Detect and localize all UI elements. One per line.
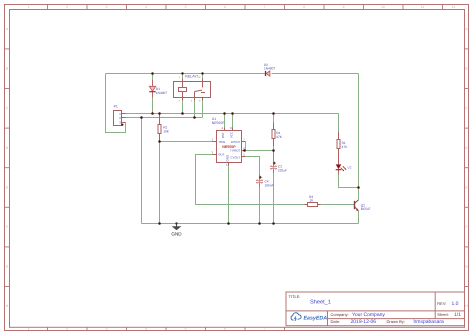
node C4 bottom	[258, 222, 261, 225]
svg-text:P1: P1	[114, 105, 118, 109]
op-amp/timer U1 NE555P	[212, 117, 246, 167]
svg-text:G: G	[6, 265, 9, 269]
pin stubs	[213, 128, 246, 166]
title block texts	[289, 294, 449, 324]
svg-text:RELAY1: RELAY1	[185, 74, 199, 78]
svg-text:12: 12	[452, 5, 456, 9]
svg-text:5: 5	[185, 327, 187, 331]
wire relay NO bottom	[202, 101, 204, 118]
node R2 top	[158, 112, 161, 115]
wire VCC rail y114	[126, 113, 339, 115]
connector P1	[114, 105, 126, 126]
wire P1 pin3 loop	[106, 74, 126, 133]
svg-text:F: F	[465, 225, 467, 229]
svg-text:3: 3	[106, 5, 108, 9]
svg-text:2: 2	[66, 327, 68, 331]
svg-text:3: 3	[106, 327, 108, 331]
wire R4 upper lead	[273, 114, 275, 123]
frame ticks right	[465, 49, 469, 287]
capacitor C4	[256, 174, 273, 187]
ground	[171, 224, 182, 237]
svg-text:2019-12-06: 2019-12-06	[351, 319, 377, 325]
resistor R3	[305, 195, 321, 207]
svg-text:RST: RST	[221, 132, 225, 138]
wire R2 lower to bottom rail	[159, 142, 161, 224]
wire R3 to Q2 base	[318, 204, 355, 206]
capacitor C2	[270, 151, 287, 174]
svg-text:CVOLT: CVOLT	[230, 156, 240, 160]
transistor Q2	[355, 200, 371, 211]
wire LED down and to collector	[339, 174, 359, 188]
wire x142 down	[141, 118, 143, 224]
node C2 top	[272, 149, 275, 152]
node LED collector	[357, 186, 360, 189]
EasyEDA logo	[291, 313, 327, 322]
svg-text:GND: GND	[171, 232, 182, 237]
diode D2	[264, 63, 275, 76]
pin names	[218, 131, 240, 161]
node C2 bottom	[272, 222, 275, 225]
node 555 RST rail	[223, 112, 226, 115]
svg-text:2: 2	[66, 5, 68, 9]
resistor R4	[272, 123, 283, 147]
pin stubs	[182, 79, 184, 82]
wire top rail left segment	[106, 73, 265, 75]
wire 555 VCC pin up	[232, 114, 234, 128]
svg-text:47K: 47K	[276, 135, 283, 139]
svg-text:4: 4	[145, 5, 147, 9]
svg-text:Company:: Company:	[331, 312, 349, 317]
svg-text:8: 8	[303, 5, 305, 9]
wire rail y118	[126, 117, 203, 119]
svg-text:F: F	[6, 225, 8, 229]
node TRIG R2	[158, 140, 161, 143]
svg-text:EasyEDA: EasyEDA	[304, 315, 328, 321]
svg-text:100nF: 100nF	[265, 183, 274, 187]
wire R4 to C2 node	[273, 146, 275, 151]
frame ticks top	[48, 5, 443, 10]
diode D1	[149, 80, 167, 98]
node relay coil top	[181, 72, 183, 74]
svg-text:10K: 10K	[163, 130, 170, 134]
svg-text:4: 4	[145, 327, 147, 331]
svg-text:Sheet:: Sheet:	[437, 312, 449, 317]
svg-text:1.0: 1.0	[452, 301, 459, 307]
wire THRES to C2 node	[245, 150, 274, 152]
svg-text:Drawn By:: Drawn By:	[387, 319, 405, 324]
svg-text:11: 11	[421, 5, 425, 9]
svg-text:GND: GND	[226, 154, 230, 162]
resistor R1	[337, 132, 347, 164]
switch	[194, 92, 196, 98]
wire Q2 emitter down	[358, 211, 360, 223]
LED U2	[336, 164, 352, 174]
wire bottom rail	[142, 223, 359, 225]
node relay common y118	[193, 116, 196, 119]
svg-text:5: 5	[185, 5, 187, 9]
svg-text:VCC: VCC	[229, 131, 233, 138]
svg-text:TITLE:: TITLE:	[289, 294, 301, 299]
svg-text:6: 6	[224, 5, 226, 9]
svg-text:1: 1	[28, 5, 30, 9]
svg-text:NE555P: NE555P	[212, 121, 225, 125]
node D1 bottom	[151, 112, 154, 115]
wire top rail right segment	[272, 73, 359, 75]
svg-text:OUT: OUT	[218, 153, 225, 157]
svg-text:1N4007: 1N4007	[264, 67, 275, 71]
node GND symbol	[175, 222, 177, 224]
wire TRIG	[160, 141, 213, 143]
wire D1 upper lead	[152, 74, 154, 81]
svg-text:7: 7	[264, 327, 266, 331]
svg-text:Sheet_1: Sheet_1	[310, 298, 331, 305]
svg-text:7: 7	[264, 5, 266, 9]
svg-text:DISCH: DISCH	[231, 140, 240, 144]
svg-text:U2: U2	[348, 165, 352, 169]
node relay contact top	[201, 72, 203, 74]
coil	[179, 88, 187, 92]
wire 555 RST pin up	[224, 114, 226, 128]
relay RELAY1	[174, 74, 211, 102]
svg-text:9: 9	[343, 5, 345, 9]
svg-text:6: 6	[224, 327, 226, 331]
junction dots	[140, 72, 360, 225]
node relay coil bottom	[181, 112, 184, 115]
svg-text:NE555P: NE555P	[222, 145, 236, 149]
wire relay contact top pin	[202, 74, 204, 79]
wire relay coil bottom to VCC rail	[182, 101, 184, 114]
node 555 VCC rail	[231, 112, 234, 115]
svg-text:1N4007: 1N4007	[156, 91, 167, 95]
svg-text:G: G	[465, 265, 468, 269]
wire OUT to R3	[196, 155, 308, 205]
title block	[286, 292, 465, 326]
wire C4 bottom	[259, 183, 261, 224]
svg-text:10: 10	[381, 5, 385, 9]
node R4 rail	[272, 112, 275, 115]
wire D1 lower lead	[152, 98, 154, 114]
pin numbers	[212, 126, 246, 167]
node 555 GND rail	[227, 222, 230, 225]
svg-text:1/1: 1/1	[454, 312, 461, 318]
resistor R2	[158, 114, 170, 142]
node D1 top	[151, 72, 154, 75]
wire R1 upper lead	[338, 114, 340, 133]
frame ticks bottom	[48, 327, 285, 330]
node THRES	[243, 149, 246, 152]
wire C2 bottom	[273, 169, 275, 224]
svg-text:470: 470	[342, 145, 348, 149]
svg-text:THRES: THRES	[230, 149, 240, 153]
svg-text:TRIG: TRIG	[218, 140, 226, 144]
wire relay common bottom	[194, 101, 196, 118]
svg-text:BC547: BC547	[361, 207, 371, 211]
svg-text:REV:: REV:	[437, 301, 446, 306]
node x142 y118	[140, 116, 143, 119]
svg-text:220uF: 220uF	[278, 169, 287, 173]
svg-text:Date:: Date:	[331, 319, 341, 324]
svg-text:hmspabasara: hmspabasara	[414, 319, 445, 325]
svg-text:1: 1	[28, 327, 30, 331]
wire 555 GND pin down	[228, 166, 230, 224]
wire relay coil top pin	[182, 74, 184, 79]
wire CVOLT to C4	[246, 157, 260, 181]
svg-text:Your Company: Your Company	[352, 312, 385, 318]
frame ticks left	[5, 49, 10, 287]
wire DISCH jog	[245, 142, 247, 151]
wire right vertical to Q2 collector	[358, 74, 360, 200]
node R2 bottom rail	[158, 222, 161, 225]
